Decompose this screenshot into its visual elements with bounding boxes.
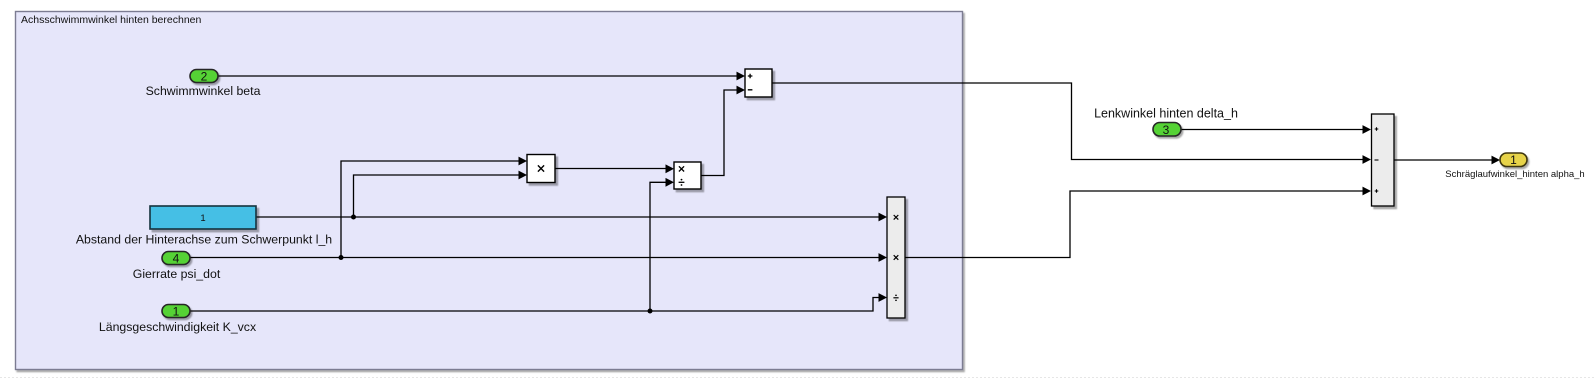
junction on Laengsgeschwindigkeit wire xyxy=(648,309,653,314)
multiply block Product1 xyxy=(527,155,555,183)
inport 1 Laengsgeschwindigkeit K_vcx xyxy=(162,305,190,319)
wire port4 Gierrate to Product2 middle input xyxy=(191,253,888,262)
wire branch l_h to Product1 lower input xyxy=(354,171,528,217)
svg-text:Achsschwimmwinkel hinten berec: Achsschwimmwinkel hinten berechnen xyxy=(21,14,201,26)
wire Add1 output to Add2 minus input xyxy=(773,83,1372,164)
svg-text:Längsgeschwindigkeit K_vcx: Längsgeschwindigkeit K_vcx xyxy=(99,320,257,334)
wire constant l_h output to Product2 top input xyxy=(257,213,888,222)
svg-text:Schwimmwinkel beta: Schwimmwinkel beta xyxy=(146,84,261,98)
divide block Divide1 xyxy=(674,162,701,189)
svg-text:Abstand der Hinterachse zum Sc: Abstand der Hinterachse zum Schwerpunkt … xyxy=(76,233,332,247)
svg-text:1: 1 xyxy=(200,213,205,224)
junction on Gierrate wire xyxy=(339,255,344,260)
svg-text:Gierrate psi_dot: Gierrate psi_dot xyxy=(133,267,221,281)
junction on l_h wire xyxy=(351,215,356,220)
inport 2 Schwimmwinkel beta xyxy=(190,70,218,84)
svg-text:Schräglaufwinkel_hinten alpha_: Schräglaufwinkel_hinten alpha_h xyxy=(1445,169,1584,180)
wire port2 to Add1 plus input xyxy=(219,72,746,81)
wire Product2 output to Add2 bottom plus input xyxy=(906,187,1372,258)
wire branch Laengsgeschwindigkeit to Divide1 divisor input xyxy=(650,178,674,311)
svg-text:4: 4 xyxy=(173,252,180,266)
wire Add2 output to outport 1 xyxy=(1395,156,1501,165)
faint dotted line at canvas bottom xyxy=(0,377,1596,379)
inport 4 Gierrate psi_dot xyxy=(162,252,190,266)
wire Product1 output to Divide1 x input xyxy=(556,164,675,173)
subsystem area Achsschwimmwinkel hinten berechnen xyxy=(16,12,963,370)
svg-text:2: 2 xyxy=(201,70,208,84)
svg-text:1: 1 xyxy=(1510,153,1517,167)
wire port1 Laengsgeschwindigkeit to Product2 bottom input xyxy=(191,293,888,311)
outport 1 Schraeglaufwinkel_hinten alpha_h xyxy=(1500,153,1527,167)
wire branch Gierrate to Product1 upper input xyxy=(341,157,527,258)
wire Divide1 output to Add1 minus input xyxy=(702,86,746,176)
svg-text:1: 1 xyxy=(173,305,180,319)
inport 3 Lenkwinkel hinten delta_h xyxy=(1153,123,1181,138)
sum block Add2 tall xyxy=(1372,114,1395,206)
sum block Add1 xyxy=(745,69,772,97)
product block Product2 tall xyxy=(887,197,905,318)
svg-text:3: 3 xyxy=(1163,123,1170,137)
constant block Abstand l_h value 1 xyxy=(150,206,256,229)
svg-text:Lenkwinkel hinten delta_h: Lenkwinkel hinten delta_h xyxy=(1094,107,1238,121)
wire port3 Lenkwinkel to Add2 top plus input xyxy=(1181,125,1371,134)
